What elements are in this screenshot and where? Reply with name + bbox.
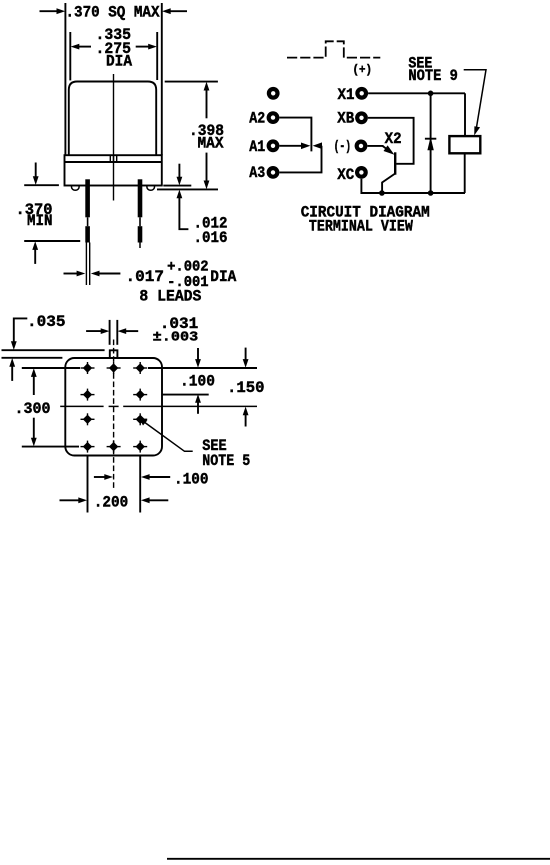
left standoff bump <box>72 186 80 190</box>
pin row3 col1 <box>81 413 95 425</box>
diode branch wire <box>430 93 432 193</box>
terminal (-) <box>355 140 368 153</box>
left lead thick lower blob <box>85 226 90 242</box>
svg-text:DIA: DIA <box>210 268 236 286</box>
horizontal centerline segments <box>60 405 257 407</box>
transistor X2 base bar <box>394 152 396 174</box>
terminal A3 <box>267 166 280 179</box>
right pin column extension below case <box>139 456 141 513</box>
terminal A2 <box>267 111 280 124</box>
junction dot diode/top rail <box>428 91 434 97</box>
wire A1 with arrow to bar <box>279 143 310 150</box>
coil branch upper wire <box>464 93 466 136</box>
svg-text:TERMINAL VIEW: TERMINAL VIEW <box>309 217 413 235</box>
svg-text:.016: .016 <box>194 229 228 247</box>
pin row3 col3 <box>133 413 147 425</box>
terminal XC <box>355 166 368 179</box>
left pin column extension below case <box>87 456 89 513</box>
svg-text:X1: X1 <box>338 86 355 104</box>
left lead thin end (double line) <box>86 243 89 286</box>
terminal X1 <box>355 87 368 100</box>
dimension .370 SQ MAX left arrow <box>40 8 66 14</box>
left lead thick upper section <box>85 179 90 217</box>
wire X1 to coil branch <box>368 92 465 94</box>
see note 9 leader line <box>464 70 486 136</box>
see note 5 leader with arrow <box>139 418 193 452</box>
flange center seam ticks <box>110 155 116 162</box>
pin row4 col3 <box>133 441 147 453</box>
footer rule <box>167 858 550 860</box>
dimension .370 MIN upper arrow <box>33 163 39 186</box>
index tab right extension line <box>116 320 118 345</box>
dimension .031 right arrow <box>118 328 139 334</box>
svg-text:+.002: +.002 <box>167 259 209 275</box>
row 4 extension line left <box>22 446 79 448</box>
.370 MIN lower extension line <box>24 240 80 242</box>
right lead thin mid section <box>139 217 141 226</box>
dimension .035 leader with down arrow <box>11 318 27 350</box>
vertical centerline (dashed) <box>113 340 115 489</box>
svg-text:.370 SQ MAX: .370 SQ MAX <box>66 3 160 21</box>
right lead thin end <box>139 243 141 249</box>
dimension .335/.275 right arrow <box>136 44 157 50</box>
dimension .150 top arrow <box>243 348 249 368</box>
left lead thin mid section <box>87 217 89 226</box>
dimension .100 top arrow <box>195 348 201 368</box>
dimension .300 top arrow <box>31 368 37 395</box>
tab top extension line <box>2 349 105 351</box>
dimension .370 MIN lower arrow <box>32 241 38 264</box>
dimension .100 (bottom) right arrow <box>141 474 170 480</box>
dimension .012/.016 upper arrow <box>177 164 183 186</box>
dimension .300 bottom arrow <box>31 418 37 447</box>
right standoff bump <box>147 186 155 190</box>
svg-text:A2: A2 <box>249 109 265 127</box>
junction dot emitter/bottom rail <box>379 190 385 196</box>
svg-text:.035: .035 <box>27 313 66 331</box>
seating plane extension line <box>157 188 218 190</box>
coil branch lower wire <box>464 153 466 193</box>
flange inner line <box>65 161 162 163</box>
svg-text:.017: .017 <box>126 268 165 286</box>
transistor X2 emitter <box>382 174 395 193</box>
wire A2 to contact bar <box>279 118 311 152</box>
svg-text:.200: .200 <box>94 494 129 512</box>
terminal XB <box>355 111 368 124</box>
right lead thick lower blob <box>138 226 143 242</box>
extension line left of .335/.275 dim <box>69 32 71 80</box>
wire XC to bottom rail <box>361 179 465 193</box>
svg-text:(+): (+) <box>353 64 373 77</box>
dimension .200 right arrow <box>141 497 168 503</box>
can top extension line for .398 dim <box>165 81 218 83</box>
svg-text:XC: XC <box>337 166 354 184</box>
extension line right of .370 SQ dim <box>161 3 163 155</box>
svg-text:.100: .100 <box>180 373 215 391</box>
svg-text:NOTE 5: NOTE 5 <box>202 452 250 470</box>
dimension .017 DIA left arrow <box>64 271 86 277</box>
dimension .031 left arrow <box>86 328 109 334</box>
row 1 pin line left segment <box>22 367 80 369</box>
case top extension line <box>2 357 63 359</box>
dimension .370 SQ MAX right arrow <box>162 8 187 14</box>
svg-text:MAX: MAX <box>198 135 224 153</box>
pin row1 col2 <box>107 362 121 374</box>
index tab left extension line <box>109 320 111 345</box>
svg-text:.300: .300 <box>15 400 51 418</box>
row 2 extension line right <box>163 394 209 396</box>
pin row4 col2 <box>107 441 121 453</box>
can vertical centerline <box>113 74 115 201</box>
diode cathode bar <box>425 138 436 140</box>
svg-text:.150: .150 <box>227 379 265 397</box>
pin row1 col3 <box>133 362 147 374</box>
svg-text:A3: A3 <box>249 164 265 182</box>
dimension .398 MAX upper arrow <box>204 82 210 119</box>
svg-text:X2: X2 <box>385 130 402 148</box>
pin row4 col1 <box>81 441 95 453</box>
dimension .035 up arrow <box>9 358 15 381</box>
svg-text:NOTE 9: NOTE 9 <box>408 67 458 85</box>
wire (-) to transistor base with arrow <box>367 145 394 154</box>
dimension .335/.275 left arrow <box>71 44 91 50</box>
flange (mounting base) outline <box>65 155 162 185</box>
row 1 pin line right segment <box>148 367 257 369</box>
wire A3 with arrow to bar <box>279 142 322 172</box>
dimension .398 MAX lower arrow <box>204 153 210 190</box>
index tab outline <box>110 350 118 358</box>
terminal (unlabeled top left) <box>267 87 280 100</box>
extension line left of .370 SQ dim <box>64 3 66 155</box>
flange bottom extension line <box>163 185 191 187</box>
svg-text:(-): (-) <box>334 139 352 155</box>
svg-text:XB: XB <box>337 110 354 128</box>
pin row1 col1 <box>81 362 95 374</box>
case outline (bottom view) <box>65 358 162 456</box>
svg-text:MIN: MIN <box>27 212 53 230</box>
svg-text:±.003: ±.003 <box>153 330 199 346</box>
right lead thick upper section <box>138 179 143 217</box>
svg-text:.100: .100 <box>174 471 209 489</box>
dimension .100 (bottom) left arrow <box>94 474 113 480</box>
pin row2 col1 <box>81 389 95 401</box>
input pulse waveform <box>287 41 380 57</box>
pin row2 col3 <box>133 389 147 401</box>
relay can body outline <box>69 82 156 156</box>
extension line right of .335/.275 dim <box>156 32 158 80</box>
dimension .100 bottom arrow <box>195 394 201 414</box>
junction dot diode/bottom rail <box>428 190 434 196</box>
svg-text:8 LEADS: 8 LEADS <box>139 288 201 306</box>
diode anode triangle <box>427 141 433 150</box>
dimension .012/.016 lower arrow and leader <box>177 190 189 230</box>
svg-text:A1: A1 <box>249 138 265 156</box>
dimension .150 bottom arrow <box>243 407 249 427</box>
wire XB to transistor collector <box>368 118 414 164</box>
.370 MIN upper extension line <box>24 184 59 186</box>
relay coil <box>449 136 480 153</box>
dimension .200 left arrow <box>60 497 88 503</box>
terminal A1 <box>267 139 280 152</box>
svg-text:DIA: DIA <box>106 52 132 70</box>
dimension .017 DIA right arrow <box>91 271 121 277</box>
